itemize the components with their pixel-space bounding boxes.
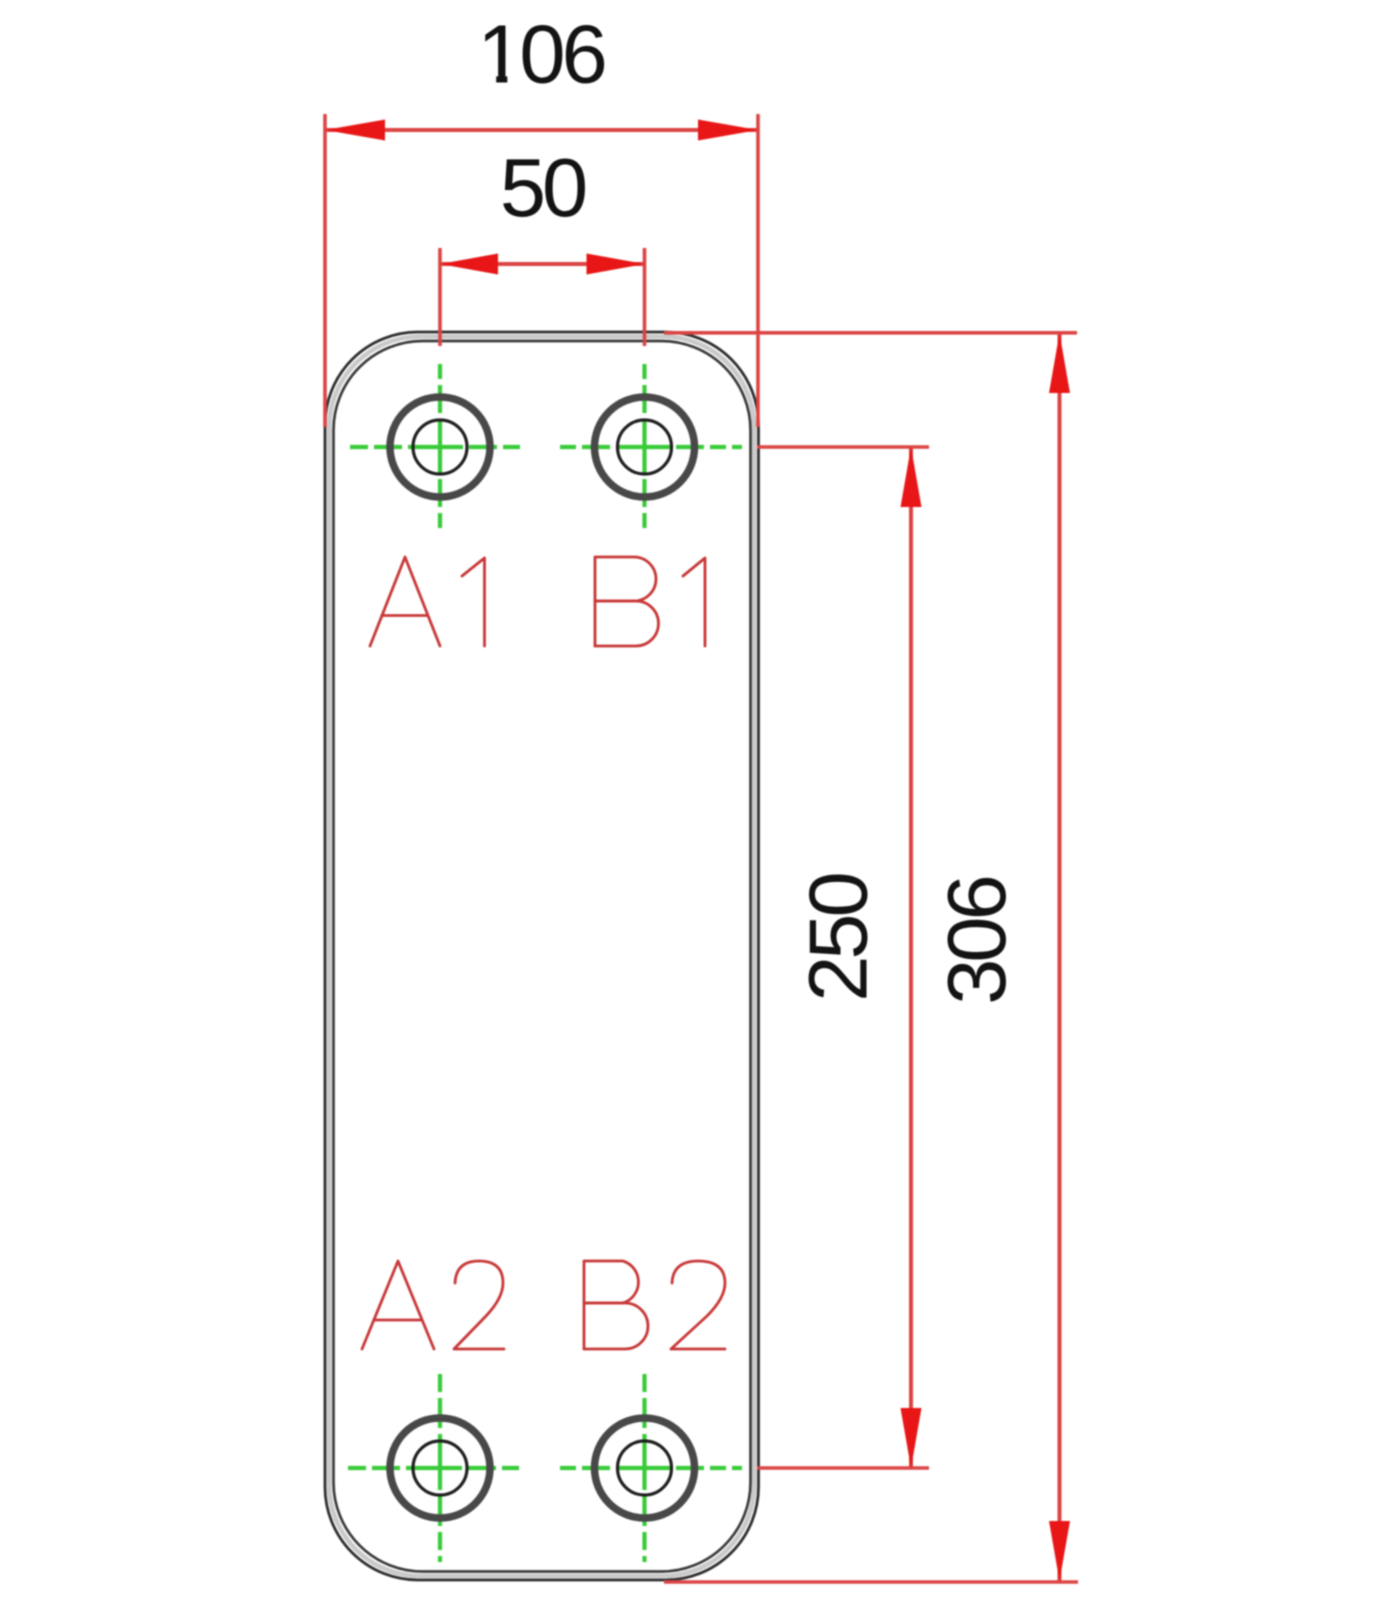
plate outer outline: [325, 332, 759, 1580]
dimension 50 line: [440, 262, 645, 266]
centerline B2: [560, 1374, 745, 1562]
centerline A1: [350, 364, 524, 531]
centerline B1: [560, 364, 745, 531]
dimension 250 arrows: [901, 447, 922, 1468]
port label B2: [584, 1261, 725, 1349]
dimension 250 extension lines: [757, 447, 929, 1468]
dimension 306 arrows: [1049, 333, 1070, 1581]
svg-text:250: 250: [792, 874, 885, 1001]
plate outline gray infill between double lines: [329, 337, 754, 1577]
dimension 106 line: [325, 128, 758, 132]
mask foot serif of digit 1: [479, 71, 496, 87]
dimension 306 extension lines: [664, 333, 1078, 1582]
port label A2: [362, 1261, 504, 1349]
port label A1: [370, 557, 485, 646]
port label B1: [595, 557, 705, 646]
dimension 106 extension lines: [325, 114, 758, 427]
svg-text:106: 106: [477, 8, 604, 101]
dimension 306 line: [1058, 333, 1062, 1581]
dimension 50 arrows: [440, 254, 645, 275]
dimension 50 extension lines: [440, 248, 645, 346]
port B1: [595, 397, 695, 497]
port B2: [595, 1418, 695, 1518]
svg-text:50: 50: [500, 141, 585, 234]
port A1: [390, 397, 490, 497]
centerline A2: [348, 1374, 524, 1562]
plate inner outline: [334, 341, 751, 1572]
dimension 106 arrows: [325, 120, 758, 141]
port A2: [390, 1418, 490, 1518]
svg-text:306: 306: [930, 877, 1023, 1004]
dimension 250 line: [909, 447, 913, 1468]
